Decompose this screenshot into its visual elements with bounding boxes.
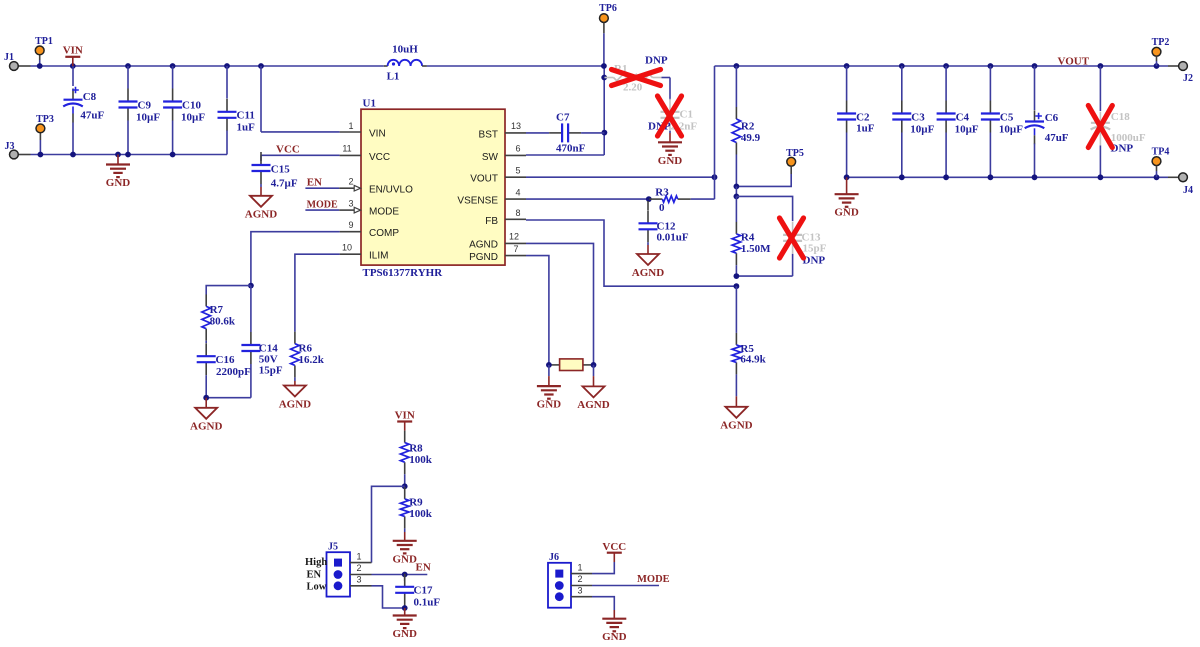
svg-text:3: 3 — [577, 585, 582, 595]
net-tie resistor GND to AGND — [549, 364, 560, 366]
svg-text:2: 2 — [577, 574, 582, 584]
connector J4 — [1168, 176, 1179, 178]
svg-text:10µF: 10µF — [955, 124, 979, 136]
svg-text:MODE: MODE — [307, 199, 338, 210]
svg-text:R7: R7 — [210, 304, 224, 316]
svg-text:GND: GND — [658, 155, 683, 167]
wire GND bottom rail — [31, 154, 228, 156]
ground GND at net-tie — [548, 365, 550, 376]
svg-text:U1: U1 — [363, 98, 376, 110]
svg-text:64.9k: 64.9k — [740, 354, 766, 366]
svg-text:C15: C15 — [271, 164, 290, 176]
svg-text:1uF: 1uF — [237, 122, 256, 134]
test point TP2 — [1152, 47, 1161, 56]
svg-text:MODE: MODE — [369, 206, 399, 217]
pin 9 COMP wire — [340, 231, 361, 233]
svg-text:C18: C18 — [1111, 111, 1130, 123]
svg-text:AGND: AGND — [632, 267, 664, 279]
svg-text:VCC: VCC — [369, 152, 390, 163]
ground AGND at R5 — [735, 396, 737, 407]
ground AGND at net-tie — [593, 365, 595, 376]
svg-text:49.9: 49.9 — [741, 132, 761, 144]
capacitor C8 47uF — [72, 66, 74, 86]
svg-text:R2: R2 — [741, 121, 755, 133]
svg-text:R3: R3 — [655, 186, 669, 198]
svg-text:GND: GND — [537, 399, 562, 411]
svg-text:VIN: VIN — [369, 129, 386, 140]
wire J5 pin3 to GND — [372, 586, 405, 608]
svg-text:L1: L1 — [387, 71, 400, 83]
ground GND at C17 — [404, 608, 406, 616]
svg-text:C10: C10 — [182, 100, 201, 112]
svg-text:12: 12 — [509, 231, 519, 241]
svg-text:0: 0 — [659, 202, 665, 214]
svg-text:C4: C4 — [956, 112, 970, 124]
op-amp U1 TPS61377RYHR boost converter IC — [361, 109, 505, 265]
capacitor C14 15pF 50V — [250, 286, 252, 332]
inductor L1 10uH — [384, 65, 388, 67]
svg-text:C7: C7 — [556, 112, 570, 124]
ground GND at R9 — [404, 528, 406, 532]
test point TP1 — [39, 55, 41, 60]
svg-text:R4: R4 — [741, 232, 755, 244]
svg-text:5: 5 — [515, 166, 520, 176]
svg-text:10uH: 10uH — [392, 44, 418, 56]
svg-text:C3: C3 — [911, 112, 925, 124]
connector J5 — [327, 552, 351, 596]
svg-text:VSENSE: VSENSE — [457, 196, 498, 207]
svg-text:1: 1 — [356, 551, 361, 561]
svg-text:SW: SW — [482, 152, 499, 163]
svg-text:J1: J1 — [4, 52, 14, 63]
svg-text:C16: C16 — [216, 354, 235, 366]
ground AGND at C16 — [205, 398, 207, 408]
svg-text:COMP: COMP — [369, 228, 399, 239]
svg-text:6: 6 — [515, 144, 520, 154]
wire EN divider to J5 pin1 — [372, 486, 405, 562]
svg-text:TPS61377RYHR: TPS61377RYHR — [363, 267, 444, 279]
wire SW vertical — [603, 66, 605, 155]
pin 6 SW wire — [505, 154, 526, 156]
svg-text:AGND: AGND — [469, 239, 498, 250]
svg-text:100k: 100k — [409, 508, 433, 520]
capacitor C9 10uF — [127, 66, 129, 89]
svg-text:C9: C9 — [138, 100, 152, 112]
test point TP3 — [39, 133, 41, 140]
wire VOUT rail right — [715, 65, 1169, 67]
svg-text:3: 3 — [348, 198, 353, 208]
test point TP5 — [787, 157, 796, 166]
resistor R2 49.9 — [735, 66, 737, 107]
wire GND bottom rail right — [847, 176, 1168, 178]
svg-text:R8: R8 — [409, 443, 423, 455]
svg-text:80.6k: 80.6k — [210, 316, 236, 328]
svg-text:AGND: AGND — [190, 421, 222, 433]
wire to C13 branch — [735, 186, 737, 196]
svg-text:C6: C6 — [1045, 112, 1059, 124]
svg-text:VIN: VIN — [63, 45, 83, 57]
svg-text:7: 7 — [513, 244, 518, 254]
svg-text:VIN: VIN — [395, 410, 415, 422]
wire R8 to R9 — [404, 474, 406, 486]
capacitor C6 47uF — [1034, 66, 1036, 110]
capacitor C7 470nF — [549, 132, 562, 134]
capacitor C5 10uF — [989, 66, 991, 101]
svg-text:GND: GND — [602, 631, 627, 642]
svg-text:VCC: VCC — [276, 144, 300, 156]
svg-text:J3: J3 — [5, 141, 15, 152]
ground AGND at R6 — [294, 377, 296, 381]
svg-text:BST: BST — [479, 129, 498, 140]
resistor R9 100k — [404, 487, 406, 499]
svg-text:EN/UVLO: EN/UVLO — [369, 185, 413, 196]
capacitor C11 1uF — [226, 66, 228, 99]
svg-text:VCC: VCC — [602, 541, 626, 553]
wire L1 to SW node — [427, 65, 604, 67]
svg-text:47uF: 47uF — [80, 110, 104, 122]
svg-text:1: 1 — [577, 562, 582, 572]
resistor R4 1.50M — [735, 196, 737, 222]
ground GND input — [117, 155, 119, 165]
svg-text:10µF: 10µF — [910, 124, 934, 136]
connector J3 — [18, 154, 31, 156]
capacitor C4 10uF — [945, 66, 947, 101]
pin 7 PGND wire — [505, 255, 526, 257]
svg-text:2200pF: 2200pF — [216, 366, 251, 378]
pin 5 VOUT wire — [505, 176, 526, 178]
svg-text:15pF: 15pF — [803, 243, 827, 255]
capacitor C10 10uF — [172, 66, 174, 89]
svg-text:TP5: TP5 — [786, 148, 804, 159]
svg-text:ILIM: ILIM — [369, 251, 388, 262]
svg-text:1uF: 1uF — [856, 123, 875, 135]
resistor R5 64.9k — [735, 286, 737, 333]
test point TP4 — [1152, 157, 1161, 166]
svg-text:EN: EN — [416, 562, 431, 574]
svg-text:TP2: TP2 — [1152, 37, 1170, 48]
svg-text:AGND: AGND — [577, 399, 609, 411]
svg-text:FB: FB — [485, 216, 498, 227]
svg-text:C1: C1 — [680, 109, 693, 121]
svg-text:MODE: MODE — [637, 574, 670, 585]
svg-text:10µF: 10µF — [136, 112, 160, 124]
svg-text:J2: J2 — [1183, 73, 1193, 84]
svg-text:2: 2 — [348, 177, 353, 187]
capacitor C2 1uF — [846, 66, 848, 101]
wire VIN top rail — [31, 65, 384, 67]
net label EN at J5 — [372, 574, 428, 576]
capacitor C18 1000uF DNP — [1099, 66, 1101, 111]
wire VOUT rail junctions — [844, 63, 850, 69]
svg-text:C8: C8 — [83, 91, 97, 103]
svg-text:GND: GND — [106, 177, 131, 189]
connector J1 — [18, 65, 31, 67]
svg-text:High: High — [305, 557, 327, 568]
svg-text:0.01uF: 0.01uF — [657, 232, 689, 244]
svg-text:13: 13 — [511, 121, 521, 131]
svg-text:2: 2 — [356, 563, 361, 573]
svg-text:AGND: AGND — [720, 420, 752, 432]
svg-text:10µF: 10µF — [181, 112, 205, 124]
pin 1 VIN wire — [260, 66, 262, 132]
resistor R6 16.2k — [294, 332, 296, 344]
svg-text:3: 3 — [356, 575, 361, 585]
svg-text:4.7µF: 4.7µF — [271, 178, 298, 190]
svg-text:J6: J6 — [549, 552, 559, 563]
svg-text:10: 10 — [342, 243, 352, 253]
svg-text:DNP: DNP — [645, 55, 668, 67]
resistor R7 80.6k — [205, 294, 207, 306]
svg-text:AGND: AGND — [245, 209, 277, 221]
svg-text:EN: EN — [307, 569, 322, 580]
capacitor C16 2200pF — [205, 341, 207, 343]
svg-text:AGND: AGND — [279, 398, 311, 410]
svg-text:10µF: 10µF — [999, 124, 1023, 136]
resistor R8 100k — [404, 431, 406, 443]
pin 4 VSENSE wire — [505, 198, 526, 200]
resistor R1 2.20 DNP — [605, 77, 614, 79]
svg-text:VOUT: VOUT — [470, 174, 498, 185]
svg-text:0.1uF: 0.1uF — [414, 597, 441, 609]
svg-text:4: 4 — [515, 188, 520, 198]
svg-text:C17: C17 — [414, 585, 433, 597]
svg-text:TP3: TP3 — [36, 114, 54, 125]
ground AGND at C12 — [647, 242, 649, 245]
ground GND at C1 — [669, 133, 671, 142]
wire COMP branch to R7 — [206, 286, 251, 295]
node R2 top — [734, 63, 740, 69]
ground GND at J6 — [602, 618, 626, 620]
capacitor C1 2.2nF DNP — [669, 78, 671, 101]
svg-text:VOUT: VOUT — [1058, 56, 1090, 68]
pin 8 FB wire — [505, 218, 526, 220]
svg-text:8: 8 — [515, 208, 520, 218]
svg-text:47uF: 47uF — [1045, 132, 1069, 144]
net label MODE at J6 — [592, 585, 659, 587]
capacitor C3 10uF — [901, 66, 903, 101]
capacitor C17 0.1uF — [404, 576, 406, 581]
wire VOUT vertical — [714, 66, 716, 199]
pin 10 ILIM wire — [340, 253, 361, 255]
capacitor C12 0.01uF — [647, 201, 649, 210]
svg-text:470nF: 470nF — [556, 143, 586, 155]
pin 12 AGND wire — [505, 242, 526, 244]
svg-text:PGND: PGND — [469, 252, 498, 263]
svg-text:100k: 100k — [409, 454, 433, 466]
svg-text:16.2k: 16.2k — [299, 354, 325, 366]
svg-text:TP6: TP6 — [599, 3, 617, 14]
svg-text:GND: GND — [392, 628, 417, 640]
svg-text:J4: J4 — [1183, 185, 1193, 196]
svg-text:EN: EN — [307, 176, 322, 188]
svg-text:11: 11 — [342, 144, 351, 154]
svg-text:TP1: TP1 — [35, 36, 53, 47]
connector J6 — [548, 563, 571, 608]
svg-text:C11: C11 — [237, 110, 255, 122]
svg-text:1.50M: 1.50M — [741, 243, 771, 255]
svg-text:R9: R9 — [409, 497, 423, 509]
ground GND at output — [846, 177, 848, 194]
svg-text:C5: C5 — [1000, 112, 1014, 124]
wire J6 pin3 to GND — [592, 597, 614, 610]
node VIN junctions — [37, 63, 43, 69]
svg-text:TP4: TP4 — [1152, 147, 1170, 158]
resistor R3 0 ohm — [649, 198, 662, 200]
svg-text:GND: GND — [392, 553, 417, 565]
svg-text:GND: GND — [834, 207, 859, 219]
power flag VCC at J6 — [592, 562, 614, 574]
svg-text:9: 9 — [348, 220, 353, 230]
capacitor C13 15pF DNP — [792, 222, 794, 235]
svg-text:Low: Low — [307, 582, 327, 593]
connector J2 — [1168, 65, 1179, 67]
ground AGND at C15 — [260, 187, 262, 196]
svg-text:DNP: DNP — [803, 255, 826, 267]
pin 13 BST wire — [505, 132, 526, 134]
svg-text:1: 1 — [348, 121, 353, 131]
svg-text:R6: R6 — [299, 343, 313, 355]
capacitor C15 4.7uF — [260, 155, 262, 161]
svg-text:15pF: 15pF — [259, 365, 283, 377]
test point TP6 — [600, 14, 609, 23]
svg-text:J5: J5 — [328, 542, 338, 553]
